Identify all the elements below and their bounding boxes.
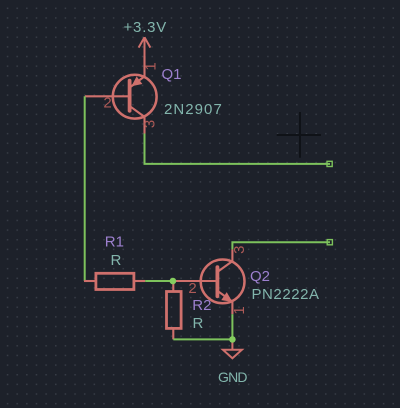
svg-text:R: R	[193, 315, 204, 332]
power label +3.3V	[124, 19, 168, 36]
svg-text:2N2907: 2N2907	[164, 101, 223, 118]
Q1 reference label	[162, 66, 182, 83]
svg-text:1: 1	[143, 62, 160, 70]
Q2 reference label	[250, 268, 270, 285]
svg-text:Q2: Q2	[250, 268, 270, 285]
svg-text:GND: GND	[218, 369, 247, 385]
svg-text:R: R	[111, 252, 122, 269]
wire Q2 collector to open end	[232, 242, 330, 249]
transistor Q1	[85, 56, 157, 134]
ground symbol	[223, 340, 242, 358]
R1 value R	[111, 252, 122, 269]
Q2 pin 2	[188, 280, 196, 297]
Q2 pin 3	[231, 246, 248, 254]
resistor R2	[167, 281, 182, 339]
svg-text:Q1: Q1	[162, 66, 182, 83]
Q1 pin 2	[103, 95, 111, 112]
wire Q1 collector to open end	[145, 134, 331, 164]
Q1 pin 1	[143, 62, 160, 70]
transistor Q2	[173, 249, 245, 314]
unconnected end square (Q1 collector wire)	[327, 161, 332, 166]
svg-text:PN2222A: PN2222A	[252, 286, 320, 303]
wire R2 bottom to GND junction	[173, 338, 232, 340]
R1 reference label	[105, 233, 124, 250]
Q1 value 2N2907	[164, 101, 223, 118]
R2 reference label	[192, 297, 211, 314]
junction node at GND	[229, 336, 236, 343]
Q2 value PN2222A	[252, 286, 320, 303]
R2 value R	[193, 315, 204, 332]
svg-text:+3.3V: +3.3V	[124, 19, 168, 36]
power symbol +3.3V	[139, 37, 151, 56]
wire Q2 emitter down	[231, 314, 233, 339]
unconnected end square (Q2 collector wire)	[327, 240, 332, 245]
resistor R1	[84, 273, 145, 289]
svg-text:3: 3	[141, 120, 158, 128]
cursor crosshair	[277, 112, 321, 158]
svg-text:2: 2	[188, 280, 196, 297]
junction node at R1/R2/Q2 base	[170, 278, 177, 285]
wire Q1 base to R1 (left vertical)	[84, 96, 86, 281]
Q1 pin 3	[141, 120, 158, 128]
GND label	[218, 369, 247, 385]
svg-text:2: 2	[103, 95, 111, 112]
svg-text:R1: R1	[105, 233, 124, 250]
wire R1 to junction	[145, 280, 173, 282]
Q2 pin 1	[231, 306, 248, 314]
svg-text:1: 1	[231, 306, 248, 314]
